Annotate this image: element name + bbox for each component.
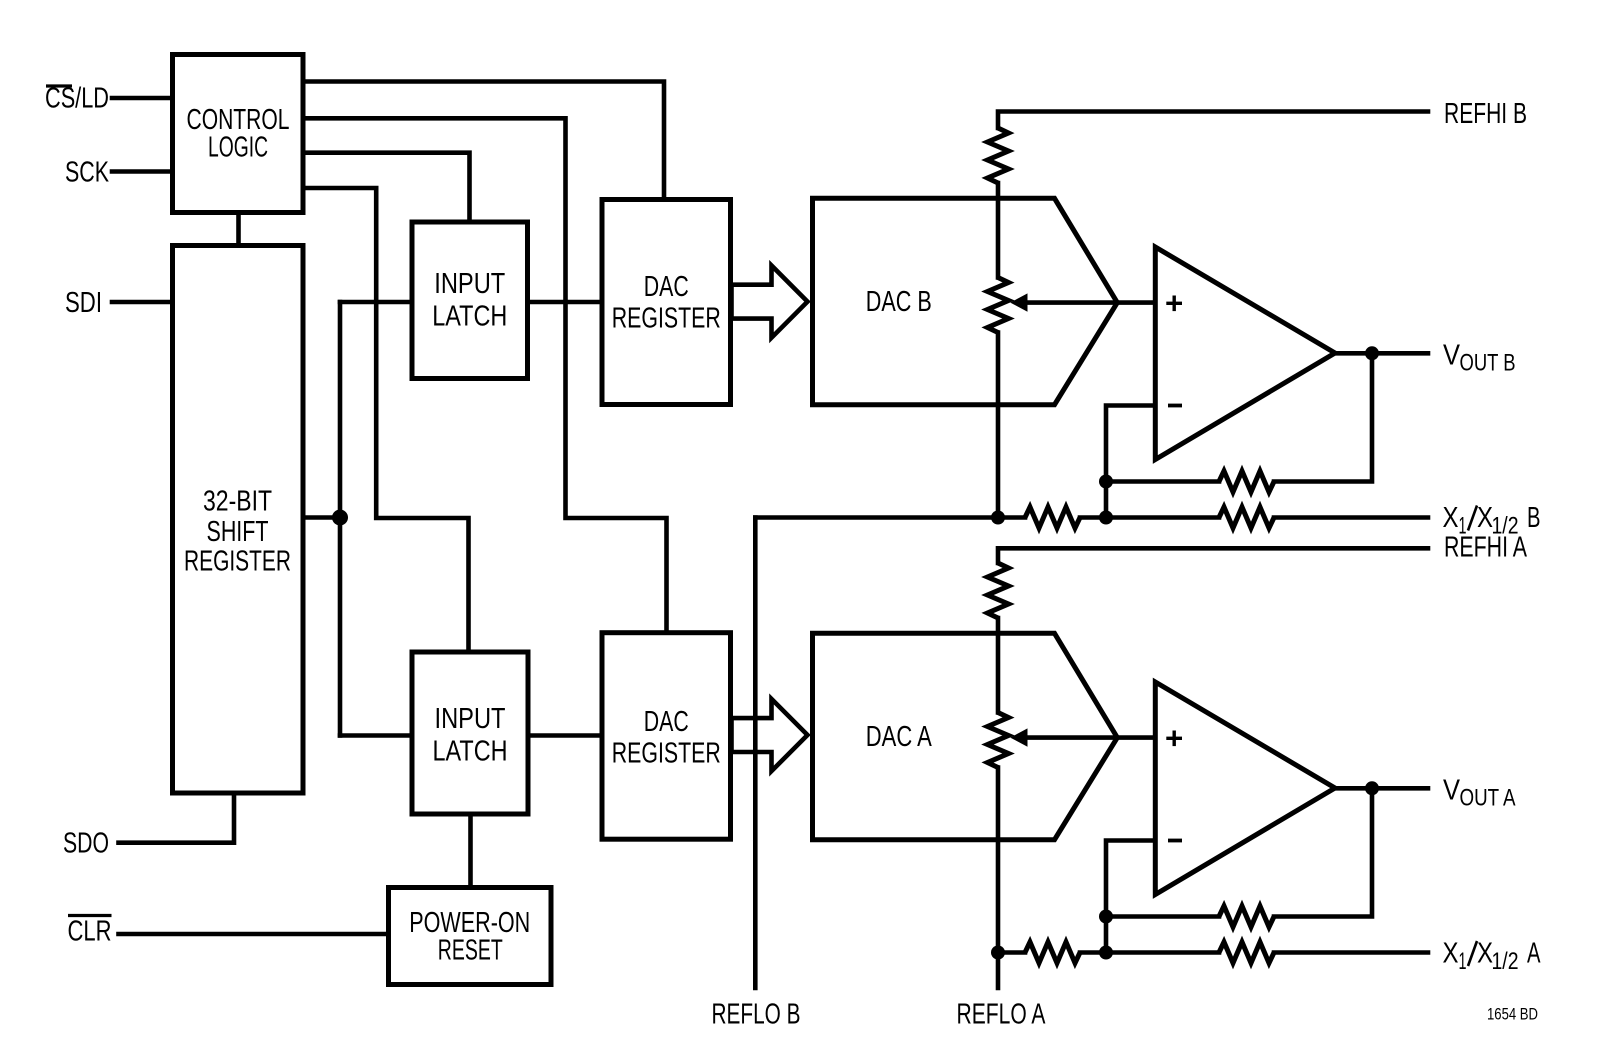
- input label SCK: [65, 157, 109, 189]
- gain resistor A1: [1025, 942, 1080, 963]
- svg-text:REFLO B: REFLO B: [712, 999, 801, 1031]
- DAC B block outline: [813, 198, 1118, 404]
- op-amp A minus sign: [1168, 839, 1182, 843]
- junction X line A: [1099, 946, 1113, 960]
- wire SDI to shift register: [112, 300, 170, 305]
- wire control line 3 to input latch B: [303, 153, 470, 222]
- junction VOUT A: [1365, 781, 1379, 795]
- wire CS/LD to control logic: [112, 96, 170, 101]
- op-amp A: [1155, 682, 1335, 895]
- bus arrow DAC register A to DAC A: [732, 699, 808, 771]
- power-on reset box: [389, 888, 552, 985]
- net label REFHI B: [1444, 98, 1527, 130]
- control logic box: [173, 55, 304, 213]
- svg-text:B: B: [1527, 502, 1541, 534]
- figure number 1654 BD: [1487, 1004, 1538, 1023]
- svg-text:RESET: RESET: [438, 935, 503, 967]
- DAC A block outline: [813, 633, 1118, 839]
- wire input latch B to DAC register B: [528, 300, 603, 305]
- input label CLR: [68, 916, 112, 948]
- 32-bit shift register box: [173, 246, 304, 794]
- svg-text:1: 1: [1459, 948, 1467, 975]
- gain resistor B1: [1025, 507, 1080, 528]
- feedback resistor B: [1219, 471, 1274, 492]
- bus arrow DAC register B to DAC B: [732, 266, 808, 338]
- input label CS/LD: [45, 83, 109, 115]
- DAC register B box: [602, 200, 731, 405]
- wire feedback A: [1106, 788, 1372, 952]
- wire control line 2 to DAC register A: [303, 118, 667, 632]
- op-amp A plus sign: [1166, 731, 1182, 747]
- wire feedback B: [1106, 353, 1372, 517]
- potentiometer B: [988, 278, 1009, 333]
- gain resistor B2: [1219, 507, 1274, 528]
- svg-text:CLR: CLR: [68, 916, 112, 948]
- svg-text:DAC: DAC: [644, 271, 689, 303]
- svg-text:INPUT: INPUT: [435, 703, 506, 735]
- svg-text:REGISTER: REGISTER: [612, 303, 721, 335]
- wire X1/X1-2 B net: [755, 515, 1428, 520]
- svg-text:REFHI B: REFHI B: [1444, 98, 1527, 130]
- resistor ladder top A: [988, 563, 1009, 618]
- svg-text:REFHI A: REFHI A: [1444, 531, 1527, 563]
- wire ladder B upper: [996, 183, 1001, 278]
- net label REFLO B: [712, 999, 801, 1031]
- svg-text:REFLO A: REFLO A: [957, 999, 1046, 1031]
- svg-text:DAC B: DAC B: [866, 286, 932, 318]
- svg-text:V: V: [1443, 775, 1461, 807]
- wire ladder A upper: [996, 618, 1001, 713]
- svg-text:SDO: SDO: [63, 828, 109, 860]
- junction ladder A bottom: [991, 946, 1005, 960]
- wire REFHI B net: [998, 112, 1428, 129]
- svg-text:X: X: [1443, 502, 1459, 534]
- wire control line 4 to input latch A: [303, 188, 469, 652]
- svg-text:1/2: 1/2: [1492, 948, 1519, 975]
- net label REFHI A: [1444, 531, 1527, 563]
- potentiometer A: [988, 713, 1009, 768]
- op-amp B plus sign: [1166, 296, 1182, 312]
- svg-text:LATCH: LATCH: [433, 735, 508, 767]
- svg-text:REGISTER: REGISTER: [184, 546, 291, 578]
- svg-text:DAC: DAC: [644, 706, 689, 738]
- svg-text:OUT A: OUT A: [1460, 785, 1516, 812]
- output label SDO: [63, 828, 109, 860]
- DAC A label: [866, 721, 932, 753]
- input latch B box: [412, 222, 528, 379]
- op-amp B: [1155, 247, 1335, 460]
- junction X line B: [1099, 511, 1113, 525]
- wire op-amp B output: [1335, 351, 1428, 356]
- wire ladder B lower: [996, 333, 1001, 518]
- wiper arrow A: [1010, 728, 1155, 746]
- svg-text:INPUT: INPUT: [434, 268, 505, 300]
- svg-text:LATCH: LATCH: [432, 300, 507, 332]
- input latch A box: [412, 652, 528, 814]
- svg-text:SDI: SDI: [65, 287, 102, 319]
- svg-text:SCK: SCK: [65, 157, 109, 189]
- svg-text:LOGIC: LOGIC: [208, 132, 268, 164]
- wire CLR to power-on reset: [119, 932, 389, 937]
- junction feedback B: [1099, 475, 1113, 489]
- resistor ladder top B: [988, 128, 1009, 183]
- wire SCK to control logic: [112, 169, 170, 174]
- svg-text:V: V: [1443, 340, 1461, 372]
- net label X1/X1-2 A: [1443, 938, 1541, 976]
- svg-text:OUT B: OUT B: [1460, 350, 1516, 377]
- net label VOUT A: [1443, 775, 1516, 812]
- input label SDI: [65, 287, 102, 319]
- svg-text:DAC A: DAC A: [866, 721, 932, 753]
- net label X1/X1-2 B: [1443, 502, 1541, 540]
- wire X1/X1-2 A net: [998, 950, 1428, 955]
- junction VOUT B: [1365, 346, 1379, 360]
- wire control logic to shift register: [236, 213, 241, 246]
- svg-text:SHIFT: SHIFT: [207, 516, 269, 548]
- DAC register A box: [602, 633, 731, 840]
- wiper arrow B: [1010, 293, 1155, 311]
- svg-text:1654 BD: 1654 BD: [1487, 1004, 1538, 1023]
- wire input latch A to power-on reset: [468, 814, 473, 888]
- gain resistor A2: [1219, 942, 1274, 963]
- wire REFHI A net: [998, 548, 1428, 563]
- wire input latch A to DAC register A: [528, 733, 602, 738]
- svg-text:REGISTER: REGISTER: [612, 738, 721, 770]
- DAC B label: [866, 286, 932, 318]
- wire shift register output bus: [303, 302, 412, 736]
- svg-text:32-BIT: 32-BIT: [203, 486, 272, 518]
- wire REFLO B: [753, 518, 758, 989]
- op-amp B minus sign: [1168, 404, 1182, 408]
- svg-text:X: X: [1443, 938, 1459, 970]
- feedback resistor A: [1219, 906, 1274, 927]
- junction feedback A: [1099, 910, 1113, 924]
- junction shift register bus: [332, 510, 348, 526]
- net label VOUT B: [1443, 340, 1516, 377]
- wire ladder A lower: [996, 768, 1001, 989]
- wire control line 1 to DAC register B: [303, 82, 664, 200]
- svg-text:A: A: [1527, 938, 1541, 970]
- wire SDO from shift register: [119, 793, 235, 843]
- junction ladder B bottom: [991, 511, 1005, 525]
- net label REFLO A: [957, 999, 1046, 1031]
- wire op-amp A output: [1335, 786, 1428, 791]
